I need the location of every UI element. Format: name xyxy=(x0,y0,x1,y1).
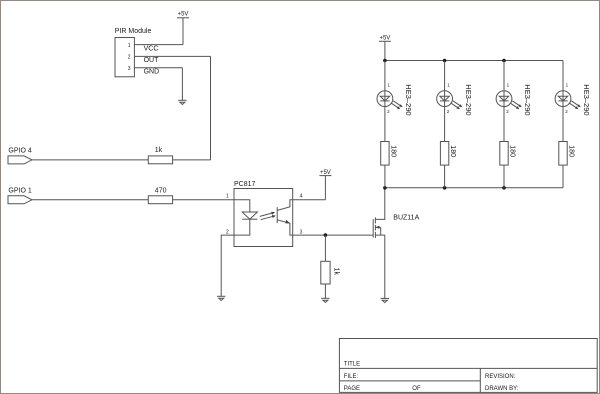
PC817 collector xyxy=(277,200,293,211)
svg-text:+5V: +5V xyxy=(178,12,189,18)
svg-text:GPIO 4: GPIO 4 xyxy=(8,148,31,155)
svg-text:HE3–290: HE3–290 xyxy=(404,84,413,115)
op-coupler PC817 body xyxy=(234,189,293,247)
LED D1 triangle xyxy=(380,96,389,101)
GPIO 4 port flag xyxy=(8,156,32,164)
svg-text:1: 1 xyxy=(226,194,229,200)
svg-text:4: 4 xyxy=(300,194,303,200)
svg-text:OF: OF xyxy=(412,386,421,392)
svg-text:OUT: OUT xyxy=(144,57,160,64)
wire R180 to bottom bus (branch 3) xyxy=(503,165,505,188)
PIR module body U? xyxy=(115,38,134,77)
LED D1 cathode bar xyxy=(380,100,389,102)
wire OUT net vertical xyxy=(210,56,212,159)
wire GPIO1 to R xyxy=(32,199,148,201)
svg-text:180: 180 xyxy=(389,145,396,157)
LED D1 branch wire xyxy=(384,61,386,142)
svg-text:HE3–290: HE3–290 xyxy=(523,84,532,115)
wire OUT net horizontal xyxy=(134,55,210,57)
resistor 1k (GPIO4) xyxy=(148,156,172,164)
ground (BUZ11A source) xyxy=(381,298,389,302)
BUZ11A source stub xyxy=(375,234,384,236)
wire R180 to bottom bus (branch 1) xyxy=(384,165,386,188)
power +5V (PIR) xyxy=(177,18,189,45)
svg-text:PC817: PC817 xyxy=(234,181,256,188)
resistor 470 (GPIO1) xyxy=(148,196,172,204)
LED D1 emission arrow b xyxy=(393,101,403,107)
LED D4 cathode bar xyxy=(558,100,567,102)
power +5V (LED array) xyxy=(379,41,391,60)
LED D3 emission arrow a xyxy=(510,103,520,109)
svg-text:GND: GND xyxy=(144,69,160,76)
svg-text:TITLE: TITLE xyxy=(344,361,360,367)
node bottom bus j3 xyxy=(502,186,506,190)
svg-text:3: 3 xyxy=(128,66,131,72)
node junction at pulldown xyxy=(324,233,328,237)
node bottom bus j1 xyxy=(383,186,387,190)
LED D3 emission arrow b xyxy=(512,101,522,107)
svg-text:HE3–290: HE3–290 xyxy=(582,84,591,115)
LED D1 circle xyxy=(377,91,393,107)
wire R to OUT vertical xyxy=(173,159,211,161)
LED D4 emission arrow a xyxy=(569,103,579,109)
svg-text:180: 180 xyxy=(567,145,574,157)
PC817 light arrow b xyxy=(261,215,276,220)
wire GND net vertical xyxy=(181,68,183,101)
svg-text:HE3–290: HE3–290 xyxy=(464,84,473,115)
LED D2 circle xyxy=(437,91,453,107)
BUZ11A body arrow xyxy=(375,226,380,235)
svg-text:PIR Module: PIR Module xyxy=(115,28,152,35)
ground (pulldown) xyxy=(321,298,329,302)
LED D3 branch wire xyxy=(503,61,505,142)
svg-text:DRAWN BY:: DRAWN BY: xyxy=(485,386,519,392)
resistor 180 (branch 3) xyxy=(500,142,508,166)
PC817 LED anode internal xyxy=(234,200,250,212)
svg-text:1k: 1k xyxy=(155,147,163,154)
LED D4 branch wire xyxy=(562,61,564,142)
wire junction to R pulldown xyxy=(324,235,326,261)
resistor 180 (branch 1) xyxy=(381,142,389,166)
transistor Q BUZ11A gate bar xyxy=(372,219,374,238)
svg-text:REVISION:: REVISION: xyxy=(485,374,516,380)
svg-text:2: 2 xyxy=(128,55,131,61)
wire GPIO4 to R xyxy=(32,159,148,161)
power +5V (PC817) xyxy=(319,176,331,200)
LED D4 circle xyxy=(555,91,571,107)
resistor 180 (branch 2) xyxy=(440,142,448,166)
resistor 180 (branch 4) xyxy=(559,142,567,166)
svg-text:2: 2 xyxy=(226,229,229,235)
wire R470 to PC817 pin1 xyxy=(173,199,234,201)
LED D3 cathode bar xyxy=(499,100,508,102)
svg-text:+5V: +5V xyxy=(320,170,331,176)
LED D2 emission arrow a xyxy=(451,103,461,109)
wire PC817 pin4 to +5V xyxy=(293,199,326,201)
svg-text:VCC: VCC xyxy=(144,45,159,52)
node top bus j3 xyxy=(502,59,506,63)
PC817 emitter xyxy=(277,220,293,235)
svg-text:470: 470 xyxy=(155,187,167,194)
LED D1 emission arrow a xyxy=(391,103,401,109)
wire top bus xyxy=(385,60,563,62)
wire R180 to bottom bus (branch 2) xyxy=(444,165,446,188)
GPIO 1 port flag xyxy=(8,196,32,204)
svg-text:1k: 1k xyxy=(332,268,339,276)
svg-text:3: 3 xyxy=(300,229,303,235)
BUZ11A drain stub xyxy=(375,188,384,220)
LED D4 emission arrow b xyxy=(571,101,581,107)
wire GND net horizontal xyxy=(134,67,182,69)
PC817 LED cathode bar xyxy=(242,218,257,220)
PC817 light arrow a xyxy=(260,212,275,217)
LED D2 branch wire xyxy=(444,61,446,142)
ground (PC817 pin2) xyxy=(217,296,225,300)
LED D2 triangle xyxy=(440,96,449,101)
wire R180 to bottom bus (branch 4) xyxy=(562,165,564,188)
BUZ11A channel segments xyxy=(374,217,376,238)
LED D4 triangle xyxy=(558,96,567,101)
PC817 LED cathode internal xyxy=(234,219,250,235)
svg-text:180: 180 xyxy=(449,145,456,157)
svg-text:FILE:: FILE: xyxy=(344,374,359,380)
ground (PIR GND) xyxy=(178,100,186,104)
svg-text:GPIO 1: GPIO 1 xyxy=(8,188,31,195)
wire R pulldown to ground xyxy=(324,284,326,298)
svg-text:180: 180 xyxy=(508,145,515,157)
wire source to ground xyxy=(384,235,386,298)
wire PC817 pin2 to ground xyxy=(221,235,234,296)
node top bus j2 xyxy=(443,59,447,63)
wire VCC net xyxy=(134,44,183,46)
resistor 1k pulldown xyxy=(321,261,330,284)
svg-text:+5V: +5V xyxy=(379,36,390,42)
title block xyxy=(339,339,597,393)
LED branches xyxy=(377,61,581,188)
wire bottom bus xyxy=(385,187,563,189)
node bottom bus j2 xyxy=(443,186,447,190)
node top bus j1 xyxy=(383,59,387,63)
LED D3 triangle xyxy=(499,96,508,101)
svg-text:BUZ11A: BUZ11A xyxy=(393,215,419,222)
LED D2 cathode bar xyxy=(440,100,449,102)
LED D3 circle xyxy=(496,91,512,107)
svg-text:PAGE: PAGE xyxy=(344,386,360,392)
PC817 emitter arrowhead xyxy=(285,220,290,224)
LED D2 emission arrow b xyxy=(453,101,463,107)
PC817 phototransistor base bar xyxy=(276,207,278,223)
PC817 LED triangle xyxy=(242,212,257,219)
svg-text:1: 1 xyxy=(128,43,131,49)
wire PC817 pin3 to gate xyxy=(293,234,374,236)
